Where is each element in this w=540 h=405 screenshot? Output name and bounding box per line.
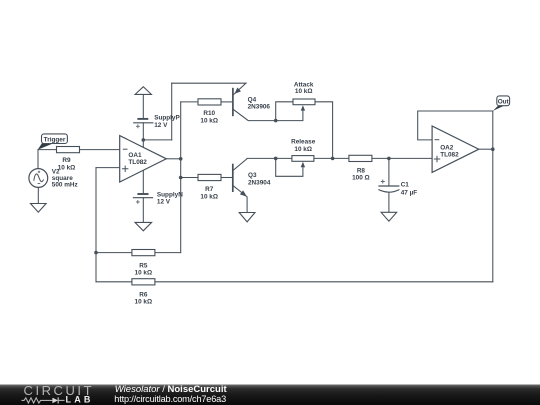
svg-text:R10: R10 [203,110,215,117]
potentiometer Release body [292,156,314,168]
svg-text:10 kΩ: 10 kΩ [135,270,153,277]
svg-text:10 kΩ: 10 kΩ [135,299,153,306]
wire OA2 feedback loop [418,111,493,140]
ground below V2 [31,204,47,213]
svg-text:10 kΩ: 10 kΩ [200,118,218,125]
junction C1 node [387,157,391,161]
wire release right to R8 [314,157,349,159]
transistor Q3 [233,164,247,197]
ground below Q3 [239,213,255,222]
wire OA1 bottom pin to SupplyN [142,170,144,194]
svg-text:R5: R5 [139,262,148,269]
wire right vertical [492,111,494,282]
wire top rail to Q4 emitter [172,83,246,95]
junction attack right rail node [331,157,335,161]
svg-text:R6: R6 [139,291,148,298]
junction SupplyP node [142,138,146,142]
wire Q4 collector [233,109,276,121]
svg-text:R7: R7 [205,186,214,193]
wire SupplyP arrow stem [142,94,144,118]
svg-text:SupplyN: SupplyN [157,191,183,198]
svg-text:47 µF: 47 µF [401,189,418,196]
wire SupplyN to ground [142,198,144,223]
junction OA2 output node [491,147,495,151]
ground below C1 [381,212,397,221]
junction release left node [274,157,278,161]
wire vertical to R10 [181,101,198,103]
transistor Q4 [233,88,241,117]
svg-text:Release: Release [291,139,316,146]
wire vertical to R7 [181,177,198,179]
potentiometer Attack body [293,99,315,111]
footer bar [0,384,540,405]
resistor R9 [57,147,80,153]
wire Q3 collector to rail [233,158,292,170]
svg-text:10 kΩ: 10 kΩ [294,146,312,153]
wire OA1 output [166,158,180,160]
wire R8 to OA2 plus [372,157,432,159]
wire attack right lead down [315,102,333,159]
wire C1 top [388,158,390,186]
svg-text:R8: R8 [357,167,366,174]
wire V2 bottom to ground [37,187,39,203]
svg-text:10 kΩ: 10 kΩ [58,165,76,172]
net flag Out [493,96,510,111]
wire node down to V2 [37,150,39,169]
wire junction to R5 [96,252,132,254]
svg-text:http://circuitlab.com/ch7e6a3: http://circuitlab.com/ch7e6a3 [114,394,226,404]
wire R10 to Q4 base [221,101,233,103]
svg-text:Out: Out [498,98,510,105]
wire R5 right to vertical [155,252,181,254]
wire corner to R6 [96,281,132,283]
junction R7 node [179,176,183,180]
wire main vertical R10 to R5 [180,102,182,253]
wire Q3 emitter to ground [233,185,247,212]
junction OA1 output node [179,157,183,161]
capacitor C1 [378,180,399,193]
wire left vertical to R6 [95,168,97,282]
wire SupplyP to OA1 top pin [142,123,144,148]
wire bottom rail to R6 [155,281,493,283]
svg-text:Q3: Q3 [248,172,257,179]
svg-text:C1: C1 [401,181,410,188]
logo resistor zigzag and diode [22,397,65,403]
wire attack left lead [276,102,293,121]
resistor R5 [132,250,155,256]
svg-text:TL082: TL082 [128,159,147,166]
battery SupplyP [133,87,153,129]
svg-text:OA2: OA2 [440,144,454,151]
svg-text:10 kΩ: 10 kΩ [295,88,313,95]
svg-text:Trigger: Trigger [44,136,66,143]
junction Q4 collector attack node [274,119,278,123]
wire trigger node to R9 [38,149,57,151]
svg-text:12 V: 12 V [157,199,171,206]
op-amp OA2 [432,126,479,172]
resistor R8 [349,155,372,161]
junction R5 node [94,251,98,255]
svg-text:10 kΩ: 10 kΩ [200,193,218,200]
svg-text:500 mHz: 500 mHz [52,182,78,189]
svg-text:100 Ω: 100 Ω [352,174,370,181]
wire SupplyP junction right [143,139,171,141]
svg-text:2N3906: 2N3906 [248,103,271,110]
net flag Trigger [38,134,68,150]
svg-text:2N3904: 2N3904 [248,180,271,187]
wire OA2 output [479,148,493,150]
svg-text:LAB: LAB [66,394,94,404]
resistor R6 [132,279,155,285]
wire OA1 plus input left [96,167,120,169]
svg-text:TL082: TL082 [440,152,459,159]
resistor R7 [198,174,221,180]
wire up to top rail [171,83,173,140]
ground below SupplyN [135,222,152,230]
op-amp OA1 [120,136,167,182]
wire R9 to OA1 minus input [80,149,120,151]
resistor R10 [198,99,221,105]
svg-text:12 V: 12 V [154,122,168,129]
wire C1 bottom to ground [388,193,390,213]
battery SupplyN [133,194,153,204]
wire attack wiper rail [276,110,303,121]
wire R7 to Q3 base [221,177,233,179]
svg-text:R9: R9 [62,157,71,164]
voltage source V2 [29,169,48,188]
wire release U wiper [276,158,303,176]
svg-text:SupplyP: SupplyP [154,115,180,122]
